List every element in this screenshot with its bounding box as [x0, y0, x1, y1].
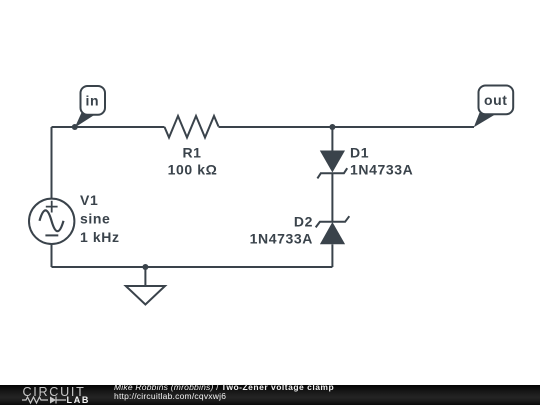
wire diode branch bottom (D2 to bottom rail)	[331, 244, 333, 267]
svg-text:1N4733A: 1N4733A	[350, 161, 413, 177]
svg-text:100 kΩ: 100 kΩ	[168, 161, 218, 177]
node in junction dot	[72, 124, 78, 130]
label R1 value 100 kOhm	[168, 161, 218, 177]
svg-text:1N4733A: 1N4733A	[250, 230, 313, 246]
wire diode branch top (junction to D1)	[331, 127, 333, 151]
ground	[126, 286, 165, 305]
svg-text:D2: D2	[294, 214, 313, 230]
wire top rail right (resistor to out flag)	[219, 126, 475, 128]
svg-text:V1: V1	[80, 192, 98, 208]
voltage source V1	[29, 199, 74, 244]
footer bar	[0, 385, 540, 405]
wire V1 bottom lead	[51, 244, 53, 267]
label D1 name	[350, 145, 369, 161]
footer url line	[114, 392, 226, 401]
CircuitLab logo wordmark	[23, 386, 86, 398]
flag out	[474, 86, 513, 128]
wire top rail left (in node to resistor)	[52, 126, 165, 128]
wire between D1 and D2	[331, 173, 333, 222]
resistor R1	[165, 116, 219, 138]
flag in	[75, 86, 105, 128]
label D2 name	[294, 214, 313, 230]
svg-text:1 kHz: 1 kHz	[80, 229, 120, 245]
CircuitLab logo LAB text	[67, 396, 91, 405]
label D2 value 1N4733A	[250, 230, 313, 246]
footer author/title line	[114, 383, 334, 392]
svg-text:in: in	[85, 92, 99, 108]
ground junction dot	[142, 264, 148, 270]
svg-text:R1: R1	[182, 144, 201, 160]
ground stub wire	[144, 267, 146, 286]
wire left branch (in rail down to V1 top)	[51, 127, 53, 199]
zener diode D1	[317, 151, 347, 179]
svg-text:D1: D1	[350, 145, 369, 161]
zener diode D2	[316, 216, 350, 244]
wire bottom rail	[52, 266, 333, 268]
svg-text:sine: sine	[80, 211, 110, 227]
label R1 name	[182, 144, 201, 160]
label D1 value 1N4733A	[350, 161, 413, 177]
svg-text:out: out	[484, 92, 508, 108]
label V1 name and values	[80, 192, 120, 245]
node junction dot at diode branch	[329, 124, 335, 130]
CircuitLab logo schematic + LAB	[22, 395, 94, 405]
